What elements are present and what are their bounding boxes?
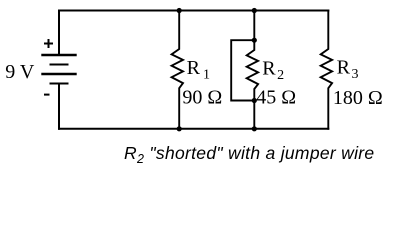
battery B1: plate short bottom (-) xyxy=(51,83,68,85)
svg-text:R2 "shorted" with a jumper wir: R2 "shorted" with a jumper wire xyxy=(124,143,374,166)
battery B1 9 V: plate long top (+) xyxy=(43,54,76,56)
wire: left branch lower segment (battery - to bottom rail) xyxy=(58,84,60,129)
label: battery plus sign xyxy=(44,43,53,45)
resistor R3 zigzag xyxy=(321,11,332,129)
node: junction dot R2 top xyxy=(252,8,257,13)
wire: top rail xyxy=(59,10,328,12)
svg-text:R3: R3 xyxy=(337,57,359,83)
battery B1: plate short upper xyxy=(51,64,68,66)
wire: bottom rail xyxy=(59,128,328,130)
node: junction dot R1 bottom xyxy=(177,126,182,131)
resistor R2 zigzag xyxy=(247,11,258,129)
svg-text:45 Ω: 45 Ω xyxy=(256,86,296,108)
node: junction dot jumper bottom on R2 branch xyxy=(252,98,257,103)
label: battery minus sign xyxy=(44,94,50,96)
svg-text:90 Ω: 90 Ω xyxy=(182,87,222,109)
svg-text:9 V: 9 V xyxy=(5,61,35,83)
resistor R1 zigzag xyxy=(172,11,183,129)
node: junction dot jumper top on R2 branch xyxy=(252,38,257,43)
svg-text:180 Ω: 180 Ω xyxy=(333,87,383,109)
svg-text:R2: R2 xyxy=(262,57,284,83)
node: junction dot R2 bottom xyxy=(252,126,257,131)
svg-text:R1: R1 xyxy=(187,57,210,83)
jumper wire loop around R2 xyxy=(231,40,254,100)
node: junction dot R1 top xyxy=(177,8,182,13)
battery B1: plate long lower xyxy=(43,73,76,75)
wire: left branch upper segment (battery + to top rail) xyxy=(58,11,60,56)
